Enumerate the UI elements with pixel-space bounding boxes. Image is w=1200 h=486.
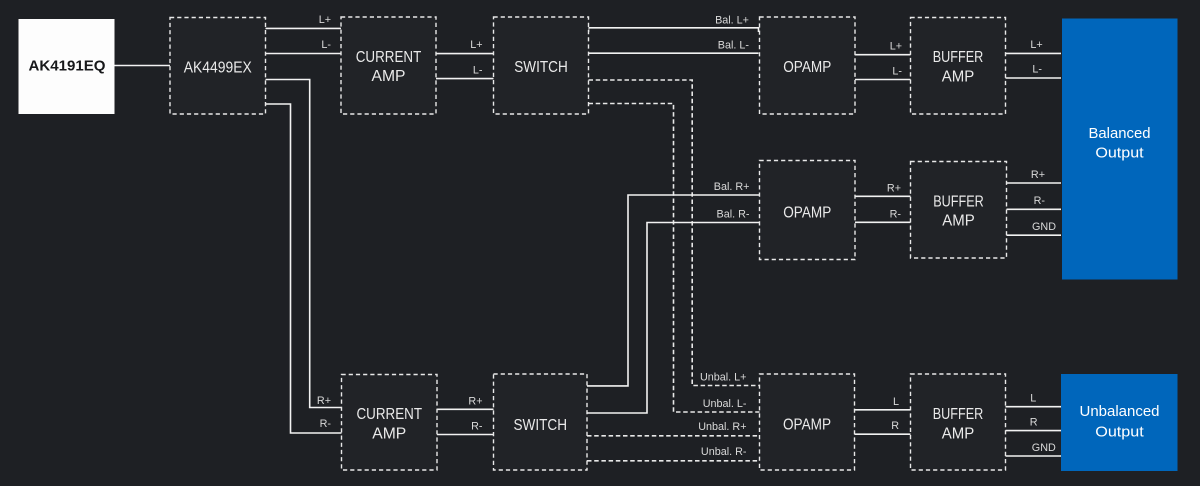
svg-text:AK4499EX: AK4499EX: [184, 59, 252, 76]
wire L bottom BUFFER AMP to Unbalanced Output: [1006, 406, 1062, 408]
block OPAMP bottom: [760, 374, 855, 470]
wire L+ top BUFFER AMP to Balanced Output: [1006, 52, 1062, 54]
wire L- DAC out: [266, 53, 342, 55]
svg-text:Output: Output: [1095, 423, 1144, 440]
svg-text:Bal. L-: Bal. L-: [718, 40, 750, 52]
wire R+ middle OPAMP to BUFFER AMP: [855, 195, 911, 197]
svg-text:BUFFER: BUFFER: [933, 406, 984, 423]
wire Bal. R- bottom SWITCH up to middle OPAMP: [587, 223, 760, 414]
wire GND middle BUFFER AMP to Balanced Output: [1007, 234, 1062, 236]
svg-text:Unbal. L+: Unbal. L+: [700, 372, 747, 384]
wire L- top CURRENT AMP to SWITCH: [436, 78, 494, 80]
wire R+ middle BUFFER AMP to Balanced Output: [1007, 182, 1062, 184]
block SWITCH top: [494, 17, 589, 114]
svg-text:AMP: AMP: [372, 68, 406, 85]
svg-text:L: L: [1030, 393, 1036, 405]
svg-text:R-: R-: [320, 418, 332, 430]
svg-text:R-: R-: [890, 208, 902, 220]
wire R+ bottom CURRENT AMP to SWITCH: [437, 408, 494, 410]
svg-text:CURRENT: CURRENT: [357, 406, 423, 423]
block Balanced Output: [1062, 19, 1178, 280]
svg-text:Bal. R+: Bal. R+: [714, 181, 750, 193]
wire L+ top CURRENT AMP to SWITCH: [436, 53, 494, 55]
svg-text:R: R: [1030, 417, 1038, 429]
svg-text:AMP: AMP: [372, 426, 406, 443]
block BUFFER AMP bottom: [911, 374, 1006, 470]
svg-text:Output: Output: [1095, 144, 1144, 161]
svg-text:CURRENT: CURRENT: [356, 49, 422, 66]
svg-text:L-: L-: [1032, 64, 1042, 76]
svg-text:L-: L-: [473, 64, 483, 76]
wire R bottom OPAMP to BUFFER AMP: [855, 433, 911, 435]
wire L- top OPAMP to BUFFER AMP: [855, 79, 911, 81]
svg-text:AMP: AMP: [942, 68, 975, 85]
svg-text:L+: L+: [319, 14, 331, 26]
svg-text:AMP: AMP: [942, 426, 975, 443]
svg-text:R+: R+: [468, 395, 482, 407]
svg-text:R+: R+: [1031, 169, 1045, 181]
wire R- bottom CURRENT AMP to SWITCH: [437, 434, 494, 436]
svg-text:Bal. L+: Bal. L+: [715, 15, 749, 27]
wire L bottom OPAMP to BUFFER AMP: [855, 409, 911, 411]
block CURRENT AMP top: [341, 17, 436, 114]
svg-text:OPAMP: OPAMP: [783, 204, 831, 221]
svg-text:L-: L-: [892, 66, 902, 78]
wire GND bottom BUFFER AMP to Unbalanced Output: [1006, 455, 1062, 457]
wire R- DAC down to bottom CURRENT AMP: [266, 104, 342, 433]
svg-text:L+: L+: [890, 41, 902, 53]
svg-text:L+: L+: [470, 39, 482, 51]
wire AK4191EQ to AK4499EX: [115, 65, 171, 67]
svg-text:Unbal. R+: Unbal. R+: [698, 421, 746, 433]
svg-text:Balanced: Balanced: [1089, 125, 1151, 142]
wire Bal. L+ SWITCH to top OPAMP: [589, 28, 759, 32]
block BUFFER AMP top: [911, 18, 1006, 115]
svg-text:R+: R+: [887, 182, 901, 194]
svg-text:AK4191EQ: AK4191EQ: [29, 58, 106, 74]
wire Unbal. R- dashed bottom SWITCH to OPAMP: [587, 460, 760, 462]
block SWITCH bottom: [494, 374, 588, 470]
wire R bottom BUFFER AMP to Unbalanced Output: [1006, 430, 1062, 432]
svg-text:AMP: AMP: [942, 213, 975, 230]
wire R- middle OPAMP to BUFFER AMP: [855, 221, 911, 223]
block OPAMP middle: [760, 161, 856, 260]
block AK4191EQ: [19, 19, 115, 114]
wire L+ DAC out: [266, 27, 342, 29]
wire R- middle BUFFER AMP to Balanced Output: [1007, 208, 1062, 210]
wire Unbal. L- dashed top SWITCH to bottom OPAMP: [589, 104, 760, 413]
svg-text:R+: R+: [317, 395, 331, 407]
svg-text:Unbalanced: Unbalanced: [1080, 403, 1160, 420]
svg-text:R: R: [891, 420, 899, 432]
svg-text:GND: GND: [1032, 442, 1056, 454]
block Unbalanced Output: [1061, 374, 1178, 471]
svg-text:BUFFER: BUFFER: [933, 193, 984, 210]
svg-text:L+: L+: [1030, 39, 1042, 51]
svg-text:GND: GND: [1032, 221, 1056, 233]
svg-text:OPAMP: OPAMP: [783, 59, 831, 76]
wire Unbal. L+ dashed top SWITCH to bottom OPAMP: [589, 80, 760, 386]
svg-text:SWITCH: SWITCH: [514, 59, 568, 76]
block BUFFER AMP middle: [911, 162, 1007, 259]
svg-text:SWITCH: SWITCH: [514, 417, 568, 434]
block CURRENT AMP bottom: [342, 375, 438, 471]
block OPAMP top: [760, 17, 856, 114]
wire R+ DAC down to bottom CURRENT AMP: [266, 80, 342, 408]
svg-text:R-: R-: [471, 420, 483, 432]
wire Unbal. R+ dashed bottom SWITCH to OPAMP: [587, 435, 760, 437]
svg-text:Unbal. R-: Unbal. R-: [701, 446, 747, 458]
svg-text:L: L: [893, 396, 899, 408]
svg-text:Bal. R-: Bal. R-: [717, 209, 750, 221]
svg-text:OPAMP: OPAMP: [783, 416, 831, 433]
svg-text:R-: R-: [1034, 195, 1046, 207]
wire L- top BUFFER AMP to Balanced Output: [1006, 77, 1062, 79]
block AK4499EX: [170, 18, 266, 115]
wire Bal. R+ bottom SWITCH up to middle OPAMP: [587, 195, 760, 386]
wire Bal. L- SWITCH to top OPAMP: [589, 52, 759, 54]
svg-text:Unbal. L-: Unbal. L-: [703, 398, 747, 410]
svg-text:L-: L-: [321, 39, 331, 51]
svg-text:BUFFER: BUFFER: [933, 49, 984, 66]
wire L+ top OPAMP to BUFFER AMP: [855, 54, 911, 56]
